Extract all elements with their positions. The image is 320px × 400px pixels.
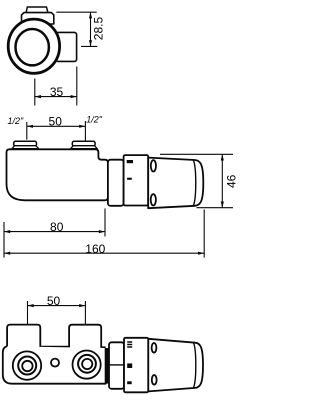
dimension 50 middle extension lines xyxy=(27,121,86,141)
middle view: valve body xyxy=(7,149,108,200)
arrow 50 mid left xyxy=(27,125,33,128)
bottom view: union collar nut xyxy=(109,342,124,389)
bottom view: left ear xyxy=(7,325,40,354)
arrow 80 right xyxy=(99,230,105,233)
bottom view: right boss inner circle xyxy=(82,359,92,369)
top view: small cap on valve spindle xyxy=(26,7,48,13)
svg-text:50: 50 xyxy=(49,114,63,128)
bottom view: dimension 50 extension lines xyxy=(28,301,86,325)
bottom view: outlet bar to head xyxy=(106,348,109,384)
bottom view: dimension 50 line xyxy=(28,305,86,307)
top view: valve body outer circle xyxy=(8,19,59,73)
dimension 35 extension lines xyxy=(35,67,77,106)
dimension 50 middle line xyxy=(27,125,86,127)
bottom view: right ear xyxy=(69,325,106,354)
bottom view: left boss inner circle xyxy=(22,361,32,371)
bottom view: left boss outer circle xyxy=(13,351,41,379)
middle view: head dome crease xyxy=(193,160,196,206)
middle view: thermostatic head body xyxy=(148,158,203,209)
arrow 28.5 up xyxy=(89,12,92,18)
arrow 35 right xyxy=(71,95,77,98)
arrow 35 left xyxy=(35,95,41,98)
dimension 160 line xyxy=(4,252,204,254)
bottom view: web line between ears xyxy=(40,346,69,348)
top view: wide cap (gland nut) xyxy=(22,13,54,24)
svg-text:80: 80 xyxy=(50,220,64,234)
dimension 80 line xyxy=(4,231,105,233)
svg-text:46: 46 xyxy=(225,174,239,188)
bottom view: knob ring xyxy=(124,338,148,393)
middle view: knob ring xyxy=(124,155,149,205)
dimension 46 line xyxy=(221,154,223,207)
dimension 28.5 extension lines xyxy=(56,12,97,46)
bottom view: head slot upper xyxy=(152,343,157,353)
dimension 80 extension lines xyxy=(4,209,105,258)
svg-text:1/2": 1/2" xyxy=(86,115,103,125)
bottom view: collar seam line xyxy=(109,364,124,366)
bottom view: thermostatic head body xyxy=(148,339,203,392)
arrow 160 right xyxy=(198,252,204,255)
arrowheads xyxy=(4,12,224,307)
middle view: right tailpiece stub xyxy=(72,141,95,146)
svg-text:50: 50 xyxy=(47,294,61,308)
bottom view: left boss middle circle xyxy=(18,357,36,375)
svg-text:35: 35 xyxy=(50,85,64,99)
middle view: knob mark upper xyxy=(127,160,133,163)
bottom view: right boss outer circle xyxy=(73,351,101,379)
arrow 80 left xyxy=(4,230,10,233)
arrow 28.5 down xyxy=(89,40,92,46)
bottom view: head slot lower xyxy=(152,375,157,385)
middle view: head slot lower xyxy=(151,194,156,205)
middle view: left tailpiece stub xyxy=(14,141,37,146)
middle view: union collar nut xyxy=(108,160,124,206)
bottom view: right boss middle circle xyxy=(78,355,96,373)
dimension 35 line xyxy=(35,96,77,98)
arrow 160 left xyxy=(4,252,10,255)
bottom view: small center hole xyxy=(51,359,59,367)
middle view: knob mark lower xyxy=(127,178,132,180)
dimension texts xyxy=(8,16,239,308)
svg-text:160: 160 xyxy=(85,242,105,256)
bottom view: knob scale marks top group xyxy=(127,342,132,347)
bottom view: knob mark middle xyxy=(127,363,132,368)
arrow 46 up xyxy=(221,154,224,160)
dimension 46 extension lines xyxy=(160,154,233,207)
svg-text:28.5: 28.5 xyxy=(92,16,106,40)
arrow 46 down xyxy=(221,202,224,208)
bottom view: knob mark bottom xyxy=(127,381,132,384)
top view: side outlet protrusion xyxy=(56,32,77,61)
dimension 28.5 line xyxy=(90,12,92,46)
svg-text:1/2": 1/2" xyxy=(8,116,25,126)
top view: valve body inner circle xyxy=(16,29,49,65)
arrow 50 bottom left xyxy=(28,304,34,307)
middle view: head slot upper xyxy=(151,160,156,171)
arrow 50 mid right xyxy=(79,125,85,128)
arrow 50 bottom right xyxy=(79,304,85,307)
bottom view: head dome crease xyxy=(193,343,195,388)
dimension 160 extension line right xyxy=(203,210,205,258)
bottom view: base slab xyxy=(3,346,106,384)
